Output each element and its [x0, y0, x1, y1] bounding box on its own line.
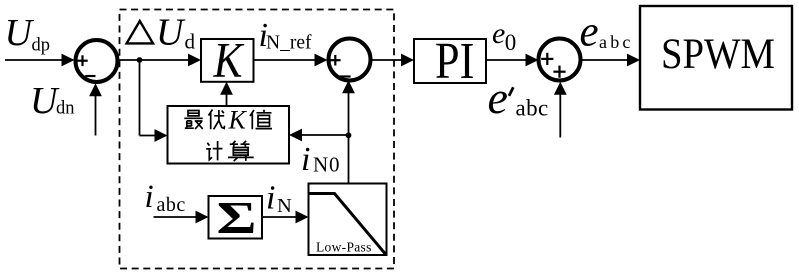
svg-text:Σ: Σ: [217, 192, 257, 243]
svg-text:K: K: [213, 33, 245, 88]
wire input to summer S1: [5, 54, 75, 67]
label U_dp: [5, 12, 51, 56]
svg-text:i: i: [145, 179, 154, 215]
wire i_abc into Sigma: [154, 211, 209, 224]
label i_N: [266, 180, 292, 218]
wire PI to summer S3: [486, 54, 539, 67]
node dot after S1: [137, 57, 143, 63]
wire K to summer S2: [254, 54, 328, 67]
wire S1 to block K: [117, 54, 201, 67]
wire S3 to SPWM: [582, 54, 640, 67]
summer S2: [329, 39, 371, 81]
label i_N0: [301, 141, 340, 178]
block Sigma: [209, 192, 263, 243]
svg-text:i: i: [266, 180, 275, 217]
svg-text:e: e: [488, 72, 508, 123]
glyph JI (计): [206, 141, 222, 160]
wire U_dn up into summer S1: [89, 83, 102, 135]
block SPWM: [640, 6, 792, 110]
wire S2 to block PI: [371, 54, 415, 67]
block optimal K calculation: [168, 106, 290, 164]
wire node to optimal-K block (down then right): [140, 60, 168, 142]
label i_N_ref: [259, 17, 312, 54]
svg-text:PI: PI: [435, 33, 474, 90]
label e_abc: [580, 9, 634, 56]
svg-text:e: e: [580, 9, 599, 56]
glyph ZHI (值): [250, 110, 272, 130]
svg-text:N_ref: N_ref: [266, 33, 312, 54]
svg-text:SPWM: SPWM: [661, 30, 775, 77]
label i_abc: [145, 179, 186, 216]
svg-text:0: 0: [505, 30, 517, 55]
svg-text:U: U: [156, 12, 186, 54]
dashed subsystem box: [120, 10, 395, 269]
svg-text:dn: dn: [56, 99, 75, 119]
glyph YOU (优): [209, 110, 225, 130]
svg-text:e: e: [492, 17, 505, 50]
summer S3: [539, 39, 581, 81]
svg-text:i: i: [301, 141, 310, 178]
label delta U_d: [127, 12, 196, 54]
glyph ZUI (最): [184, 111, 202, 130]
label U_dn: [30, 80, 75, 122]
label e_0: [492, 17, 516, 55]
block PI: [414, 33, 486, 90]
svg-text:N: N: [277, 195, 292, 217]
svg-text:U: U: [5, 12, 35, 54]
svg-text:abc: abc: [599, 32, 634, 52]
wire LPF node to optimal-K block (leftward): [289, 129, 349, 142]
block K: [201, 33, 254, 88]
summer S1: [76, 40, 118, 82]
svg-text:abc: abc: [516, 96, 549, 121]
svg-text:dp: dp: [32, 36, 51, 56]
svg-text:K: K: [228, 105, 248, 134]
glyph SUAN (算): [228, 141, 254, 161]
node dot on LPF feedback: [346, 132, 352, 138]
label e'_abc: [488, 72, 549, 123]
wire LPF up into summer S2: [342, 80, 355, 183]
svg-text:N0: N0: [313, 153, 340, 177]
wire Sigma to LPF: [262, 211, 309, 224]
wire optimal-K block up into K: [220, 82, 233, 106]
svg-text:d: d: [185, 30, 196, 54]
svg-text:abc: abc: [157, 194, 186, 216]
svg-text:Low-Pass: Low-Pass: [316, 239, 372, 254]
wire e'_abc up into summer S3: [554, 82, 567, 138]
block low-pass filter: [309, 184, 387, 256]
